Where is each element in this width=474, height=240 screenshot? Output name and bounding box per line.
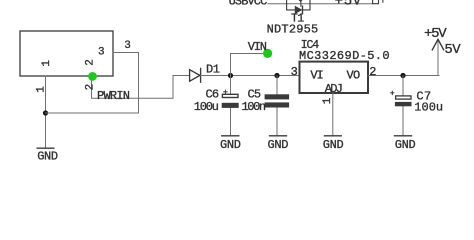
svg-text:VIN: VIN (248, 40, 267, 54)
svg-text:3: 3 (291, 65, 298, 79)
svg-text:VI: VI (310, 68, 322, 82)
svg-text:GND: GND (268, 138, 289, 152)
svg-text:100n: 100n (242, 100, 266, 114)
svg-text:2: 2 (84, 84, 96, 91)
transistor T1 source pin stub (cut off) (286, 0, 288, 4)
svg-text:1: 1 (36, 86, 48, 93)
ground GND (C6) (222, 135, 239, 137)
node junction C5 (274, 73, 279, 78)
supply +5V arrow (432, 39, 443, 75)
node pin2 connection dot (green) (88, 72, 97, 81)
svg-text:MC33269D-5.0: MC33269D-5.0 (299, 49, 390, 63)
svg-text:VO: VO (347, 68, 361, 82)
fuse F1 bottom sliver (373, 0, 379, 4)
wire pin3 net (46, 53, 139, 114)
wire pin1 to ground (45, 76, 47, 148)
svg-text:+: + (390, 88, 395, 98)
svg-text:3: 3 (98, 46, 105, 58)
ground GND (C7) (395, 135, 412, 137)
svg-text:USBVCC: USBVCC (229, 0, 268, 8)
svg-text:1: 1 (41, 60, 53, 67)
capacitor C5 plates (265, 94, 290, 99)
ground GND (C5) (270, 135, 287, 137)
wire pin2 PWRIN net (92, 76, 190, 99)
node junction pin1/pin3 (43, 110, 48, 115)
svg-text:GND: GND (395, 138, 416, 152)
svg-text:PWRIN: PWRIN (97, 89, 130, 103)
svg-text:+5V: +5V (424, 26, 447, 42)
wire VIN stub (231, 54, 265, 76)
svg-text:100u: 100u (414, 100, 443, 114)
transistor T1 body-diode loop (287, 4, 310, 14)
transistor T1 gate arrow (cut off) (299, 0, 303, 6)
capacitor C6 wires (230, 76, 232, 94)
ground GND (ADJ) (325, 135, 342, 137)
wire IC4 VO output (368, 75, 439, 77)
capacitor C6 plates (polarized) (222, 94, 238, 97)
capacitor C5 wires (276, 76, 278, 95)
svg-text:GND: GND (220, 138, 241, 152)
connector X1 power jack body (20, 31, 113, 76)
transistor T1 drain pin stub (cut off) (309, 0, 311, 4)
wire tick (upper sheet) (382, 0, 384, 2)
svg-text:ADJ: ADJ (325, 82, 342, 96)
svg-text:100u: 100u (194, 100, 219, 114)
wire top USBVCC net (268, 3, 373, 5)
svg-text:2: 2 (369, 65, 376, 79)
svg-text:3: 3 (124, 40, 131, 52)
capacitor C7 wires (402, 76, 404, 96)
svg-text:2: 2 (84, 59, 96, 66)
capacitor C7 plates (polarized) (396, 96, 411, 99)
wire D1 cathode to IC4 VI (201, 75, 300, 77)
node junction +5V/C7 (400, 73, 405, 78)
svg-text:D1: D1 (206, 62, 220, 76)
wire IC4 ADJ to ground (332, 93, 334, 136)
IC4 regulator body (300, 62, 369, 93)
svg-text:1: 1 (322, 97, 334, 104)
svg-text:+: + (223, 88, 228, 98)
svg-text:5V: 5V (444, 42, 461, 58)
node junction VIN/C6 (228, 73, 233, 78)
svg-text:NDT2955: NDT2955 (267, 22, 319, 36)
diode D1 (190, 68, 201, 82)
svg-text:+5V: +5V (335, 0, 362, 10)
svg-text:GND: GND (323, 138, 344, 152)
svg-text:GND: GND (37, 150, 58, 164)
node VIN connection dot (green) (263, 49, 272, 58)
ground GND (jack) (37, 147, 54, 149)
